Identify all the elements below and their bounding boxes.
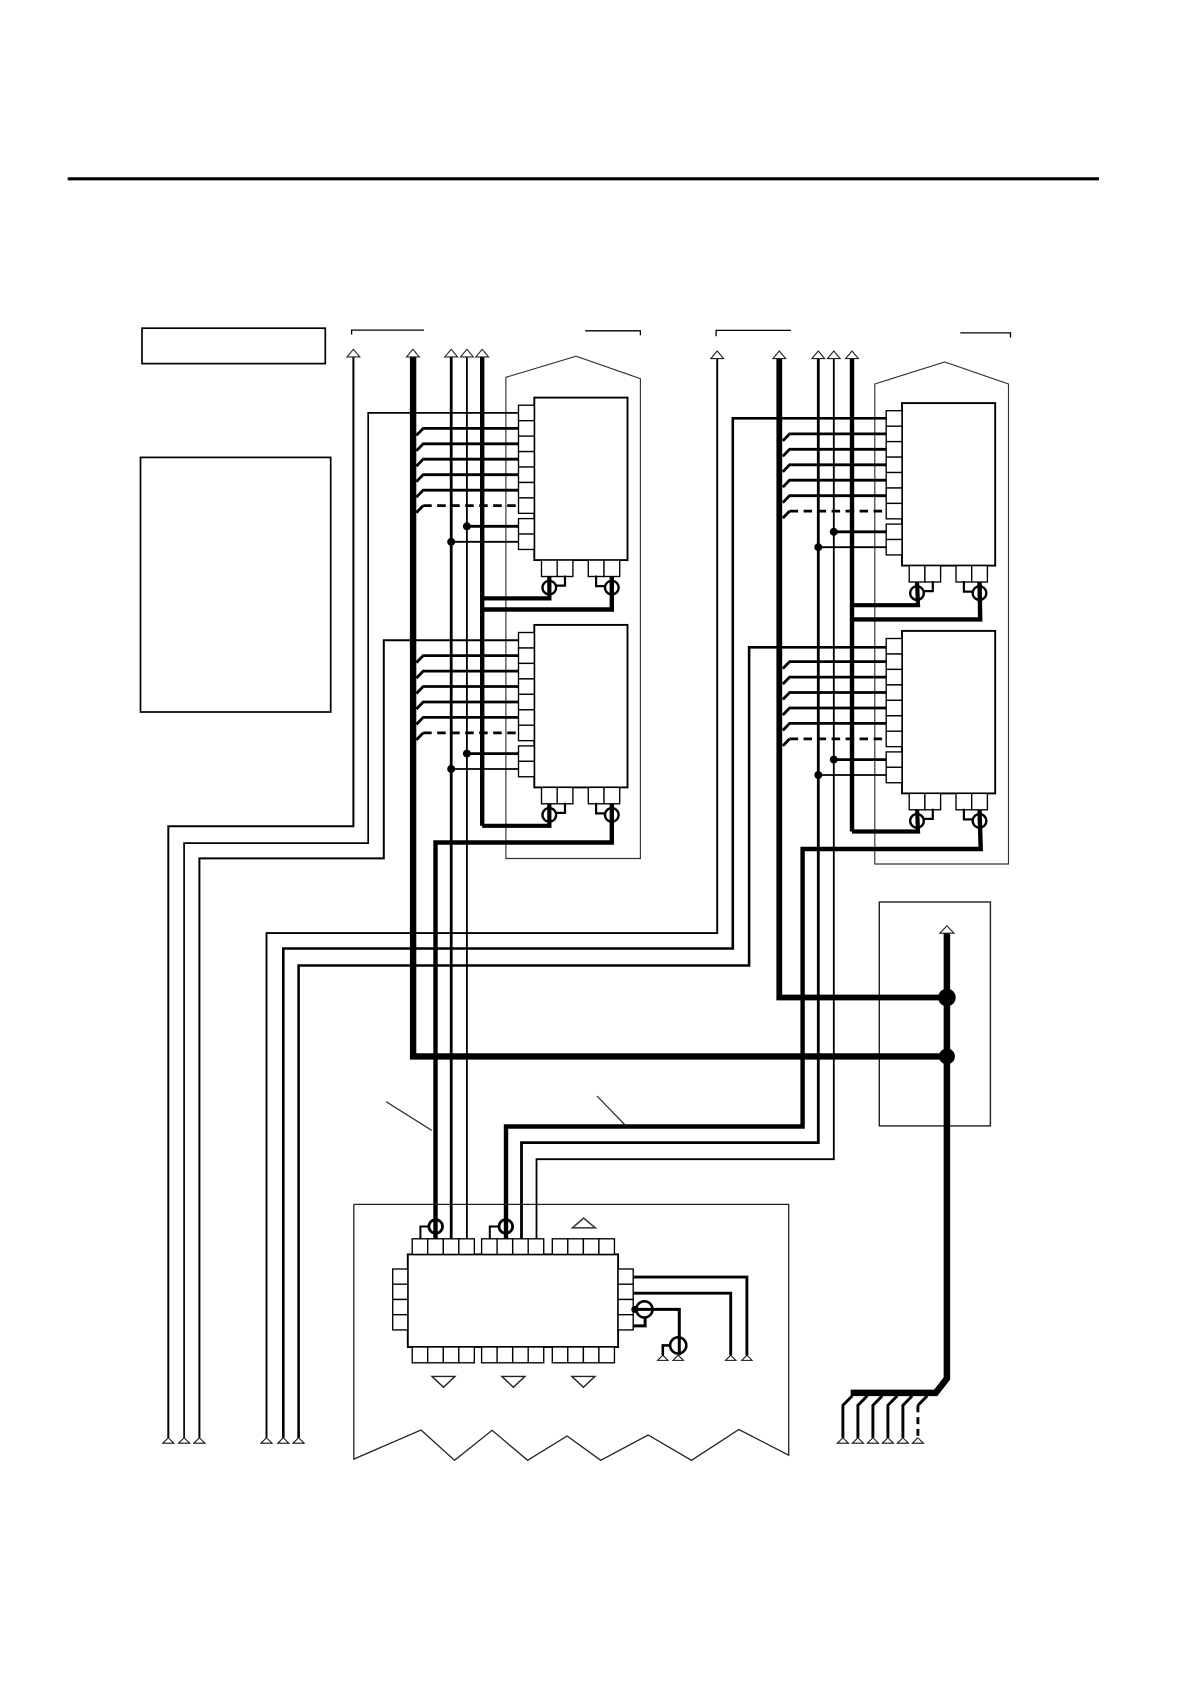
feeder arrow (940, 926, 954, 933)
U5 connector3 circle (636, 1301, 652, 1317)
U2 pin9 wire (451, 768, 518, 770)
horizontal rule (68, 177, 1099, 180)
U1 pin2 wire (416, 428, 518, 435)
U4 pin3 wire (783, 677, 886, 684)
U3 pin7 wire dash (790, 510, 887, 513)
arrow A2 (407, 349, 420, 357)
U3 pin4 wire (783, 465, 886, 472)
U2 junction dot pin9 (447, 765, 455, 773)
U2 left pins (519, 633, 535, 777)
U5 ground marker 2 (502, 1376, 525, 1387)
U3 connector2 circle (973, 586, 987, 600)
U4 pin1 wire (299, 647, 887, 1438)
feeder branch 5 (903, 1396, 912, 1438)
U3 connector2 wire (852, 580, 980, 619)
U3 junction dot pin9 (814, 543, 822, 551)
wire net A4 (466, 357, 468, 1239)
bracket B-left (716, 330, 791, 336)
IC U3 body (902, 403, 995, 565)
feeder branch terminal 1 (837, 1438, 848, 1443)
U3 connector1 circle (910, 586, 924, 600)
U3 pin8 wire (834, 530, 886, 533)
U5 connector2 circle (499, 1220, 513, 1234)
U2 pin7 wire dash (423, 732, 518, 735)
U1 pin8 wire (467, 525, 519, 528)
arrow A5 (476, 349, 489, 357)
connector area box (879, 902, 990, 1126)
arrow A3 (445, 349, 458, 357)
bottom block outline (354, 1204, 789, 1460)
feeder branch terminal 2 (852, 1438, 863, 1443)
U1 junction dot pin9 (447, 538, 455, 546)
arrow B1 (711, 351, 724, 359)
U5 connector1 circle (429, 1220, 443, 1234)
feeder branch 4 (888, 1396, 897, 1438)
bracket B-right (960, 333, 1010, 338)
arrow B5 (846, 351, 859, 359)
U5 ground marker 3 (572, 1376, 595, 1387)
U3 pin2 wire (783, 434, 886, 441)
U1 left pins (519, 405, 535, 549)
U1 pin5 wire (416, 475, 518, 482)
U4 pin2 wire (783, 662, 886, 669)
U4 pin9 wire (818, 774, 886, 776)
note box 1 (142, 328, 325, 363)
shield outline A (506, 356, 641, 858)
U1 pin9 wire (451, 541, 518, 543)
U5 right wire 3 (633, 1309, 679, 1355)
thick feeder wire (851, 933, 947, 1393)
U4 pin8 wire (834, 758, 886, 761)
U4 pin5 wire (783, 708, 886, 715)
bracket A-left (352, 330, 424, 334)
junction dot J1 (938, 989, 956, 1007)
U2 junction dot pin8 (463, 750, 471, 758)
U2 pin2 wire (416, 656, 518, 663)
arrow A1 (347, 349, 360, 357)
arrow B4 (827, 351, 840, 359)
U5 junction dot right (631, 1306, 638, 1313)
U5 right wire 2 terminal (726, 1355, 736, 1360)
U3 left pins (886, 411, 902, 555)
IC U2 body (534, 625, 627, 788)
U4 connector1 wire (852, 808, 918, 832)
U4 connector2 circle (973, 814, 987, 828)
wire terminal 3 (673, 1355, 683, 1360)
bus B5 thick (850, 359, 854, 832)
left terminal 4 (261, 1438, 272, 1443)
left terminal 3 (194, 1438, 205, 1443)
feeder branch 2 (858, 1396, 867, 1438)
U1 pin3 wire (416, 444, 518, 451)
U3 pin5 wire (783, 480, 886, 487)
feeder branch terminal 5 (897, 1438, 908, 1443)
U2 connector1 wire (482, 802, 549, 826)
IC U1 body (534, 398, 627, 560)
bracket A-right (585, 331, 640, 335)
left terminal 1 (163, 1438, 174, 1443)
U3 junction dot pin8 (830, 528, 838, 536)
U2 pin1 wire (199, 640, 518, 1438)
feeder branch terminal 6 (912, 1438, 923, 1443)
U5 right wire 1 (633, 1277, 747, 1355)
U2 connector1 circle (543, 808, 557, 822)
U5 connector2 hook (490, 1227, 499, 1240)
U2 pin6 wire (416, 717, 518, 724)
U1 connector1 circle (543, 581, 557, 595)
shield outline B (875, 362, 1009, 864)
U1 bottom pins (542, 560, 620, 576)
feeder branch 6 dashed (916, 1405, 919, 1438)
U5 pin hook wire (633, 1318, 645, 1326)
U1 pin6 wire (416, 490, 518, 497)
U1 pin4 wire (416, 459, 518, 466)
U4 left pins (886, 639, 902, 783)
bus A2 thick (413, 357, 943, 1057)
U2 pin3 wire (416, 671, 518, 678)
ground terminal 1 (658, 1355, 668, 1360)
U4 pin7 wire dashed (783, 739, 790, 746)
U2 connector2 wire (436, 802, 612, 1239)
IC U4 body (902, 631, 995, 794)
U5 right wire 1 terminal (742, 1355, 752, 1360)
U2 connector2 hook (596, 803, 605, 814)
feeder branch 3 (873, 1396, 882, 1438)
wire net B1 (267, 359, 718, 1438)
U2 pin7 wire dashed (416, 733, 423, 740)
U4 bottom pins (909, 793, 987, 809)
U5 connector4 circle (670, 1337, 686, 1353)
U5 right pins (618, 1269, 633, 1330)
wire net B3 (522, 359, 819, 1239)
note box 2 (141, 457, 331, 712)
U3 connector1 hook (924, 581, 933, 591)
arrow B2 (773, 351, 786, 359)
U1 pin1 wire (184, 413, 518, 1438)
U4 pin6 wire (783, 723, 886, 730)
U1 connector1 wire (482, 575, 549, 599)
U2 connector1 hook (556, 803, 565, 813)
U3 connector1 wire (852, 580, 918, 605)
U2 pin4 wire (416, 687, 518, 694)
U5 top pins (412, 1239, 614, 1255)
feeder branch terminal 3 (867, 1438, 878, 1443)
left terminal 5 (278, 1438, 289, 1443)
U1 connector1 hook (556, 576, 565, 586)
U3 pin6 wire (783, 496, 886, 503)
U4 connector1 circle (910, 814, 924, 828)
U3 pin3 wire (783, 449, 886, 456)
U5 left pins (393, 1269, 408, 1330)
wire net A3 (450, 357, 453, 1239)
U5 ground marker 1 (432, 1376, 455, 1387)
U4 connector2 wire (506, 808, 981, 1239)
U2 connector2 circle (605, 808, 619, 822)
U1 pin7 wire dashed (416, 506, 423, 513)
U4 pin7 wire dash (790, 738, 887, 741)
U2 pin8 wire (467, 752, 519, 755)
arrow A4 (461, 349, 474, 357)
U3 pin9 wire (818, 546, 886, 548)
U5 marker triangle (572, 1218, 595, 1228)
callout leader 1 (386, 1102, 432, 1131)
U1 connector2 circle (605, 581, 619, 595)
bus A5 thick (480, 357, 484, 826)
ground hook wire (663, 1345, 670, 1355)
feeder branch terminal 4 (882, 1438, 893, 1443)
U1 pin7 wire dash (423, 504, 518, 507)
U1 connector2 hook (596, 576, 605, 587)
U1 junction dot pin8 (463, 522, 471, 530)
wire net B4 (537, 359, 834, 1239)
U4 connector1 hook (924, 809, 933, 819)
bus B2 thick (779, 359, 943, 998)
U3 bottom pins (909, 566, 987, 582)
U5 bottom pins (412, 1347, 614, 1363)
U4 pin4 wire (783, 693, 886, 700)
IC U5 body (408, 1254, 618, 1347)
U2 bottom pins (542, 787, 620, 803)
arrow B3 (812, 351, 825, 359)
junction dot J2 (939, 1048, 955, 1064)
U2 pin5 wire (416, 702, 518, 709)
U4 junction dot pin9 (814, 771, 822, 779)
left terminal 2 (179, 1438, 190, 1443)
wire net A1 (168, 357, 353, 1438)
U5 connector1 hook (420, 1227, 429, 1240)
U4 connector2 hook (964, 809, 973, 820)
U3 connector2 hook (964, 581, 973, 592)
U3 pin7 wire dashed (783, 511, 790, 518)
U3 pin1 wire (283, 418, 886, 1438)
feeder branch 1 (843, 1396, 852, 1438)
feeder branch 6 entry (918, 1396, 927, 1405)
callout leader 2 (597, 1096, 626, 1126)
left terminal 6 (293, 1438, 304, 1443)
U1 connector2 wire (482, 575, 612, 610)
U5 right wire 2 (633, 1293, 731, 1355)
U4 junction dot pin8 (830, 756, 838, 764)
